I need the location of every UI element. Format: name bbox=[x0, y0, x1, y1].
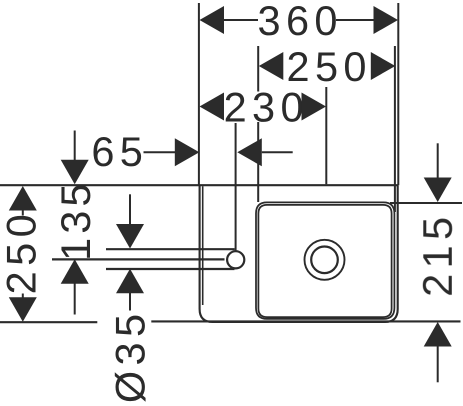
svg-text:215: 215 bbox=[414, 211, 461, 296]
svg-text:230: 230 bbox=[224, 83, 309, 130]
svg-text:360: 360 bbox=[257, 0, 342, 44]
svg-text:Ø35: Ø35 bbox=[107, 308, 154, 403]
svg-text:135: 135 bbox=[52, 180, 99, 261]
svg-text:65: 65 bbox=[91, 128, 148, 175]
svg-text:250: 250 bbox=[0, 209, 45, 294]
